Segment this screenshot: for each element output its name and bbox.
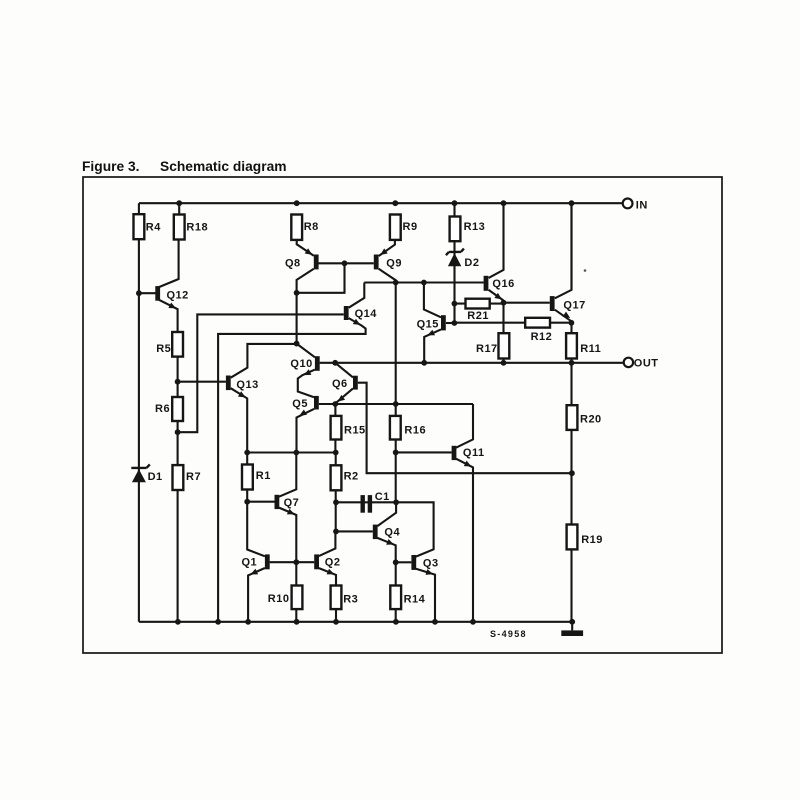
wire Q7 emitter column: [279, 508, 296, 563]
svg-text:Q12: Q12: [167, 289, 189, 301]
svg-text:Q11: Q11: [463, 447, 485, 459]
transistor Q4: [373, 525, 378, 540]
wire C1 link: [336, 501, 396, 503]
wire left column (R4/D1 branch): [138, 203, 140, 622]
svg-text:R19: R19: [581, 534, 603, 546]
resistor R14: [390, 586, 401, 610]
node Q10 collector junction: [294, 341, 300, 347]
svg-text:Q10: Q10: [290, 358, 312, 370]
emitter arrow Q4: [386, 539, 394, 545]
wire Q10 collector diag: [297, 344, 315, 358]
wire output rail: [320, 362, 624, 364]
capacitor C1 right plate: [368, 495, 372, 513]
svg-text:Q1: Q1: [242, 557, 258, 569]
emitter arrow Q17: [563, 312, 571, 318]
svg-text:Q15: Q15: [417, 318, 439, 330]
wire Q4 base: [336, 530, 373, 532]
wire bottom supply rail: [139, 621, 572, 623]
resistor R4: [134, 214, 145, 239]
emitter arrow Q10: [304, 369, 312, 375]
resistor R1: [242, 465, 253, 490]
transistor Q13: [226, 376, 231, 391]
svg-text:Q3: Q3: [423, 558, 439, 570]
svg-text:Q4: Q4: [384, 526, 400, 538]
node R6-R7 junction: [175, 429, 181, 435]
svg-text:R14: R14: [404, 593, 426, 605]
wire Q4 emitter: [377, 538, 395, 562]
svg-text:Q8: Q8: [285, 257, 301, 269]
transistor Q16: [484, 276, 489, 291]
diode D2 body: [448, 253, 461, 266]
wire Q17 base: [504, 302, 550, 304]
emitter arrow Q15: [427, 330, 435, 336]
diode D1 cathode bar: [131, 464, 150, 468]
svg-text:OUT: OUT: [634, 358, 659, 370]
wire Q5 base: [319, 403, 336, 405]
wire R21: [454, 303, 503, 305]
wire R14 column: [395, 562, 397, 622]
wire Q8 emitter from R8: [297, 240, 314, 256]
resistor R3: [331, 586, 342, 610]
wire R17 column: [502, 303, 504, 363]
wire Q6 emitter diag: [336, 388, 353, 403]
svg-text:Q2: Q2: [325, 557, 341, 569]
node Q3 emitter at bottom rail: [432, 619, 438, 625]
svg-text:Q5: Q5: [292, 398, 308, 410]
wire Q6 collector diag: [335, 363, 353, 378]
ground symbol: [561, 630, 583, 636]
wire C1 to Q3 collector: [396, 502, 434, 556]
wire Q13 collector riser: [231, 344, 297, 378]
svg-text:R13: R13: [464, 221, 486, 233]
svg-text:Figure 3.: Figure 3.: [82, 159, 140, 174]
node Q9 collector junction: [393, 280, 399, 286]
node Q4 base / Q2 collector: [333, 529, 339, 535]
resistor R6: [172, 397, 183, 421]
resistor R21: [466, 299, 490, 309]
wire Q14 emitter to bottom rail: [218, 318, 366, 622]
transistor Q17: [550, 296, 555, 311]
svg-text:R18: R18: [186, 221, 208, 233]
emitter arrow Q7: [287, 509, 295, 515]
node R15 bottom / R2 top: [333, 450, 339, 456]
resistor R16: [390, 416, 401, 440]
wire R9-R16 main column: [395, 283, 397, 503]
transistor Q11: [452, 446, 457, 460]
node Q14 emitter column at bottom rail: [215, 619, 221, 625]
svg-text:Q6: Q6: [332, 378, 348, 390]
wire Q9 emitter from R9: [379, 240, 395, 256]
node Q16 collector at top rail: [501, 200, 507, 206]
wire Q17 collector riser: [555, 203, 572, 298]
wire R12 link Q15 base to Q17 emitter: [454, 322, 571, 324]
node R21 left / D2 column: [452, 301, 458, 307]
svg-text:R7: R7: [186, 471, 201, 483]
emitter arrow Q3: [426, 569, 434, 575]
svg-text:R10: R10: [268, 593, 290, 605]
svg-text:Q14: Q14: [355, 308, 378, 320]
wire Q13 base: [178, 381, 226, 383]
wire R7 column to bottom rail: [177, 432, 179, 622]
wire R13-D2 column: [453, 203, 455, 323]
resistor R20: [567, 405, 578, 430]
resistor R15: [331, 416, 342, 440]
emitter arrow Q8: [305, 248, 313, 255]
node R7 at bottom rail: [175, 619, 181, 625]
wire top supply rail: [139, 202, 623, 204]
svg-text:R15: R15: [344, 425, 366, 437]
node Q8 collector tie: [294, 290, 300, 296]
svg-text:IN: IN: [636, 199, 648, 211]
wire Q12 collector: [158, 240, 179, 288]
svg-text:R4: R4: [146, 221, 161, 233]
wire Q11 emitter column: [456, 459, 473, 622]
wire Q12 base: [139, 292, 156, 294]
wire Q1 emitter: [248, 568, 265, 622]
transistor Q8: [314, 255, 319, 270]
wire Q8-Q9 base rail: [318, 262, 374, 264]
resistor R8: [291, 215, 302, 240]
node R11-R20 at output rail: [569, 360, 575, 366]
resistor R2: [331, 465, 342, 490]
wire R10 column: [295, 562, 297, 622]
wire Q6 base riser / feedback line: [358, 383, 572, 474]
node IN junction: [569, 200, 575, 206]
node Q15 emitter at output rail: [421, 360, 427, 366]
wire Q2 collector riser: [319, 531, 336, 556]
node R9 at top rail: [392, 200, 398, 206]
resistor R18: [174, 215, 185, 240]
node Q13 emitter / R1 top: [244, 450, 250, 456]
svg-text:Q13: Q13: [236, 379, 258, 391]
terminal IN: [623, 199, 633, 209]
svg-text:S-4958: S-4958: [490, 629, 527, 639]
svg-text:R1: R1: [256, 470, 271, 482]
node R19 at bottom rail: [569, 619, 575, 625]
resistor R9: [390, 215, 401, 240]
node R13 at top rail: [452, 200, 458, 206]
resistor R19: [567, 525, 578, 550]
node R5-R6 / Q13 base: [175, 379, 181, 385]
node Q5 emitter / Q7 collector: [293, 450, 299, 456]
emitter arrow Q5: [299, 410, 307, 416]
emitter arrow Q16: [494, 293, 502, 300]
wire R1 column to Q1: [247, 453, 265, 557]
resistor R10: [292, 586, 303, 610]
emitter arrow Q1: [250, 569, 258, 575]
wire Q17 emitter: [555, 310, 572, 322]
node feedback divider junction: [569, 470, 575, 476]
transistor Q2: [314, 554, 319, 569]
wire R5-R6 link: [177, 357, 179, 397]
resistor R17: [499, 333, 510, 358]
node Q4 emitter / Q3 base / R14: [393, 559, 399, 565]
wire R6-R7 jog up to Q14 base: [178, 314, 344, 432]
node Q15 base / D2 anode: [452, 320, 458, 326]
emitter arrow Q13: [238, 391, 246, 397]
emitter arrow Q12: [168, 303, 176, 309]
node output rail / Q6 collector: [332, 360, 338, 366]
node Q15 collector junction: [421, 280, 427, 286]
wire Q7 base: [247, 501, 274, 503]
node C1 right / Q4 collector: [393, 499, 399, 505]
node Q16 emitter junction: [501, 300, 507, 306]
transistor Q12: [155, 286, 160, 301]
svg-text:R3: R3: [343, 593, 358, 605]
wire Q3 emitter column: [416, 569, 435, 622]
emitter arrow Q11: [464, 461, 472, 467]
border frame: [83, 177, 722, 653]
resistor R11: [566, 333, 577, 358]
node R2 bottom / C1 left: [333, 499, 339, 505]
transistor Q9: [374, 255, 379, 270]
wire tail current bus: [247, 451, 336, 453]
svg-text:R21: R21: [467, 310, 489, 322]
wire Q16 base rail: [364, 281, 483, 283]
scan speck: [584, 269, 587, 272]
node R3 at bottom rail: [333, 619, 339, 625]
svg-text:Schematic diagram: Schematic diagram: [160, 159, 287, 174]
node R4-Q12 base junction: [136, 290, 142, 296]
node R10 at bottom rail: [294, 619, 300, 625]
svg-text:R12: R12: [531, 331, 553, 343]
transistor Q3: [411, 555, 416, 570]
wire R11-R20-R19 column: [570, 323, 572, 622]
resistor R13: [450, 217, 461, 242]
capacitor C1 left plate: [361, 495, 365, 513]
node R15 top / Q5 base / Q6 emitter: [332, 401, 338, 407]
svg-text:D2: D2: [464, 257, 479, 269]
node Q11 emitter at bottom rail: [470, 619, 476, 625]
wire base-collector tie of Q8: [297, 263, 345, 293]
transistor Q14: [344, 306, 349, 320]
wire Q16 collector riser: [489, 203, 504, 278]
wire Q16 emitter: [489, 290, 504, 301]
wire Q15 emitter to output rail: [424, 329, 441, 362]
node R14 at bottom rail: [393, 619, 399, 625]
svg-text:C1: C1: [375, 491, 390, 503]
wire Q15 collector riser: [424, 283, 441, 318]
transistor Q10: [315, 356, 320, 371]
wire R2 column: [335, 453, 337, 532]
node Q17 emitter / R12 / R11: [569, 320, 575, 326]
svg-text:D1: D1: [148, 471, 163, 483]
resistor R12: [525, 318, 550, 328]
wire Q15 base: [446, 322, 454, 324]
node Q1 emitter at bottom rail: [245, 619, 251, 625]
emitter arrow Q9: [380, 248, 388, 255]
wire Q12 emitter to R5: [158, 299, 178, 332]
node R18 at top rail: [176, 200, 182, 206]
node Q7 emitter / base link / R10: [293, 559, 299, 565]
wire Q8 collector column: [297, 269, 314, 344]
svg-text:Q9: Q9: [386, 257, 402, 269]
svg-text:Q17: Q17: [563, 300, 585, 312]
wire IN column: [570, 203, 572, 290]
diode D1 body: [132, 469, 146, 482]
wire Q5 emitter column: [297, 409, 315, 453]
resistor R5: [172, 332, 183, 357]
wire Q13 emitter column: [231, 388, 248, 452]
wire Q3 base: [396, 561, 412, 563]
emitter arrow Q2: [327, 569, 335, 575]
wire R15 column: [334, 404, 336, 453]
svg-text:R5: R5: [156, 343, 171, 355]
wire Q11 base: [396, 451, 452, 453]
svg-text:R20: R20: [580, 414, 602, 426]
wire Q1-Q2 base link: [270, 561, 315, 563]
transistor Q1: [265, 554, 270, 569]
transistor Q7: [275, 495, 280, 509]
wire Q14 collector riser: [349, 283, 365, 308]
svg-text:R2: R2: [344, 471, 359, 483]
wire Q7 collector riser: [279, 453, 296, 497]
wire Q2 emitter / R3 column: [319, 568, 336, 622]
wire ground stem: [571, 622, 573, 631]
svg-text:R17: R17: [476, 343, 498, 355]
node R8 at top rail: [294, 200, 300, 206]
resistor R7: [173, 465, 184, 490]
node base rail junction: [342, 260, 348, 266]
diode D2 cathode bar: [446, 249, 464, 256]
transistor Q6: [353, 376, 358, 390]
node R16 top: [393, 401, 399, 407]
transistor Q5: [314, 396, 319, 410]
wire R18 top lead: [178, 203, 180, 240]
svg-text:R11: R11: [580, 343, 601, 355]
transistor Q15: [441, 315, 446, 330]
svg-text:R6: R6: [155, 403, 170, 415]
emitter arrow Q6: [338, 395, 345, 402]
node R17 at output rail: [501, 360, 507, 366]
wire R15-R16 top link to Q11 collector: [335, 403, 473, 405]
terminal OUT: [624, 358, 633, 367]
node R16 bottom / Q11 base: [393, 450, 399, 456]
wire Q9 collector: [379, 269, 396, 283]
svg-text:R9: R9: [403, 221, 418, 233]
node R1 bottom / Q7 base / Q1 collector: [244, 499, 250, 505]
svg-text:R16: R16: [404, 425, 426, 437]
wire Q10 emitter to Q5: [298, 370, 315, 398]
emitter arrow Q14: [353, 319, 361, 325]
svg-text:Q7: Q7: [284, 497, 300, 509]
svg-text:Q16: Q16: [492, 278, 514, 290]
wire Q4 collector riser: [377, 502, 396, 526]
svg-text:R8: R8: [304, 221, 319, 233]
wire Q11 collector riser: [456, 404, 473, 448]
